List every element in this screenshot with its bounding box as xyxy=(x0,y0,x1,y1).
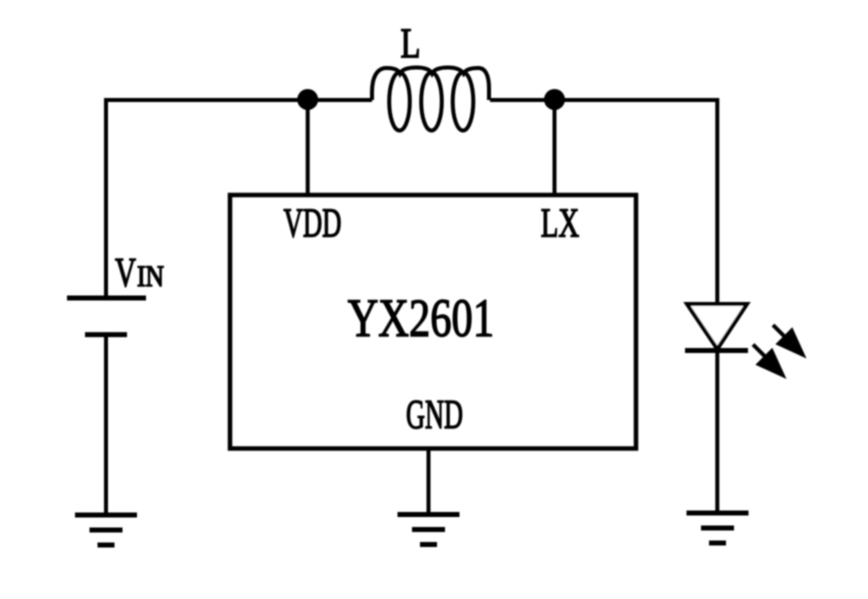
svg-text:V: V xyxy=(115,249,136,295)
inductor L xyxy=(372,68,489,131)
LED D1 xyxy=(685,304,748,351)
svg-text:GND: GND xyxy=(406,391,463,437)
wire inductor right to LED top xyxy=(490,100,717,304)
node VDD junction xyxy=(297,89,318,110)
IC U1 YX2601 xyxy=(230,195,636,449)
ground (left, battery) xyxy=(75,515,137,545)
wire top-left horizontal (battery to inductor) xyxy=(106,100,372,298)
wire LX pin (junction to box top) xyxy=(553,100,557,195)
LED emission arrow 2 xyxy=(773,325,807,359)
wire GND pin (box bottom to middle ground) xyxy=(427,449,431,515)
svg-text:YX2601: YX2601 xyxy=(348,287,495,348)
wire LED cathode to ground xyxy=(715,351,719,514)
svg-text:IN: IN xyxy=(137,260,164,293)
wire VDD pin (junction to box top) xyxy=(306,100,310,195)
svg-text:L: L xyxy=(401,22,421,68)
node LX junction xyxy=(544,89,565,110)
ground (middle, GND pin) xyxy=(398,515,460,545)
svg-text:VDD: VDD xyxy=(284,199,342,245)
svg-text:LX: LX xyxy=(541,199,580,245)
battery VIN xyxy=(67,298,146,335)
LED emission arrow 1 xyxy=(753,345,787,380)
label VIN xyxy=(115,249,164,295)
ground (right, LED) xyxy=(687,513,749,543)
wire battery to left ground xyxy=(104,335,108,515)
